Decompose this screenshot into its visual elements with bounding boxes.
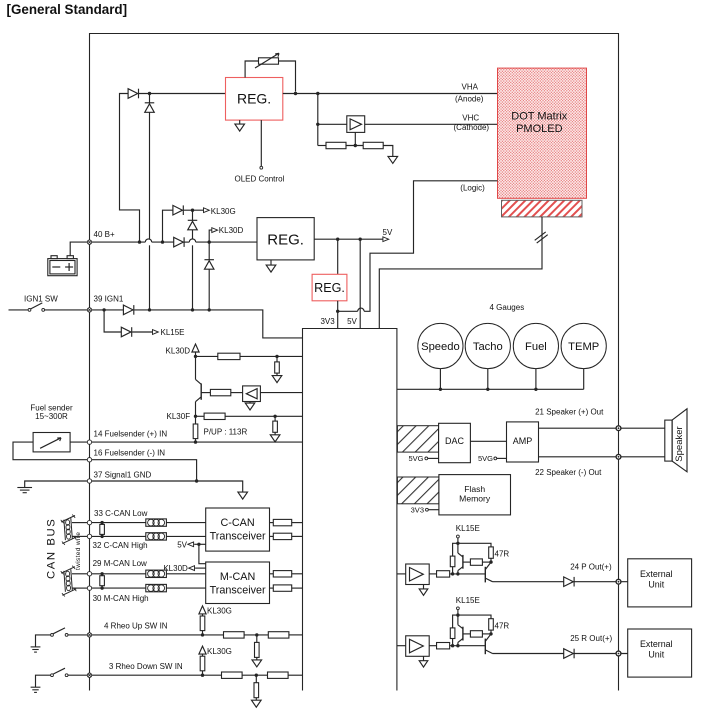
resistor R-e (450, 556, 455, 567)
svg-text:29 M-CAN Low: 29 M-CAN Low (93, 559, 147, 568)
wire row (92, 634, 224, 636)
svg-text:5VG: 5VG (408, 454, 423, 463)
svg-text:(Logic): (Logic) (460, 183, 485, 192)
wire out (493, 653, 564, 655)
pin 30 (87, 586, 91, 590)
choke FB1a (146, 519, 167, 526)
svg-text:(Anode): (Anode) (455, 94, 484, 103)
svg-text:47R: 47R (495, 621, 510, 630)
svg-text:IGN1 SW: IGN1 SW (24, 294, 58, 303)
transceiver U-CCAN (206, 508, 270, 551)
resistor R-e (450, 628, 455, 639)
wire row (92, 674, 222, 676)
choke FB1b (146, 533, 167, 540)
svg-text:KL30G: KL30G (211, 207, 236, 216)
svg-text:VHC: VHC (462, 114, 479, 123)
resistor R-base (463, 633, 471, 635)
svg-text:5VG: 5VG (478, 454, 493, 463)
wire VHC branch (317, 94, 319, 146)
svg-text:3V3: 3V3 (411, 506, 424, 515)
svg-text:KL30F: KL30F (167, 412, 191, 421)
diode D-out (564, 577, 574, 587)
resistor R-47R (489, 619, 494, 630)
ground signal1 (238, 492, 248, 499)
diode D-out (564, 649, 574, 659)
svg-text:Unit: Unit (648, 580, 664, 590)
svg-text:40 B+: 40 B+ (94, 230, 115, 239)
external unit box (628, 629, 692, 677)
resistor R-in (429, 573, 436, 575)
wire (Logic) line (338, 310, 358, 312)
pin 29 (87, 572, 91, 576)
ground drv (423, 656, 425, 660)
svg-text:Fuel: Fuel (525, 341, 547, 353)
wire rail (453, 615, 491, 628)
wire KL30G branch (163, 210, 173, 242)
wire B+ rail (92, 241, 146, 243)
pin 39 IGN1 (87, 308, 91, 312)
net out ring (616, 579, 621, 584)
svg-text:24 P Out(+): 24 P Out(+) (570, 562, 612, 571)
switch SW (51, 674, 54, 677)
svg-text:KL30D: KL30D (163, 564, 188, 573)
svg-text:KL15E: KL15E (456, 596, 480, 605)
svg-text:21 Speaker (+) Out: 21 Speaker (+) Out (535, 407, 604, 416)
ground REG2 (270, 260, 272, 265)
display PMOLED (498, 68, 587, 198)
svg-text:AMP: AMP (513, 436, 533, 446)
svg-text:5V: 5V (383, 228, 393, 237)
net label KL30G (204, 208, 210, 213)
wire logic cable (379, 217, 542, 329)
regulator REG2 (257, 218, 314, 260)
wire OLED Control (260, 120, 262, 166)
chassis ground SW (31, 686, 41, 688)
gauge Speedo (418, 323, 463, 368)
ground pd2 (270, 435, 280, 442)
connector DAC bus (397, 426, 438, 452)
svg-text:DAC: DAC (445, 436, 465, 446)
regulator REG1 (226, 78, 283, 121)
svg-text:Tacho: Tacho (473, 341, 503, 353)
resistor R-in (429, 645, 436, 647)
wire 5V to MCAN (199, 544, 206, 563)
svg-text:KL30G: KL30G (207, 607, 232, 616)
svg-text:REG.: REG. (267, 231, 304, 248)
resistor R-a (224, 632, 245, 638)
ground buf1 (249, 402, 251, 404)
svg-text:REG.: REG. (314, 281, 345, 295)
resistor R-pd1 (276, 356, 278, 362)
transistor Q-pnp (457, 543, 459, 553)
wire 5V rail (314, 238, 383, 240)
svg-text:C-CAN: C-CAN (220, 517, 254, 529)
regulator REG3 (337, 239, 339, 274)
resistor R-KL30D (196, 355, 218, 357)
resistor R-VHC2 (363, 142, 383, 148)
svg-text:M-CAN: M-CAN (220, 571, 255, 583)
resistor R-c32 (270, 535, 274, 537)
svg-text:Memory: Memory (459, 493, 491, 503)
svg-text:30 M-CAN High: 30 M-CAN High (93, 594, 149, 603)
resistor R-VHC1 (318, 145, 326, 147)
svg-text:Speaker: Speaker (674, 426, 685, 461)
ground pd (252, 660, 262, 667)
svg-text:39 IGN1: 39 IGN1 (94, 295, 124, 304)
net label KL30G pull-up (199, 606, 206, 614)
svg-text:Transceiver: Transceiver (210, 585, 266, 597)
svg-text:REG.: REG. (237, 91, 271, 107)
resistor R-c33 (270, 522, 274, 524)
wire KL15E branch (104, 310, 121, 332)
twisted pair 2 (72, 573, 87, 575)
gauge Tacho (465, 323, 510, 368)
resistor R-KL30F (196, 415, 205, 417)
svg-text:4 Gauges: 4 Gauges (490, 303, 525, 312)
gauge TEMP (561, 323, 606, 368)
amp U-AMP (507, 422, 539, 462)
wire row30 (92, 587, 146, 589)
wire sender to pin16 (13, 442, 87, 460)
resistor R-term1 (101, 523, 103, 525)
diode D-IGN1-KL30G (192, 210, 194, 220)
memory U-FLASH (439, 475, 511, 515)
cable marks (537, 235, 548, 243)
wire VHA (283, 93, 498, 95)
choke FB2b (146, 584, 167, 591)
ground drv (423, 585, 425, 589)
speaker SPK (665, 420, 672, 461)
wire sender to pin14 (70, 441, 87, 443)
amp U-drv (397, 645, 406, 647)
resistor R-pd (255, 675, 257, 683)
amp U-VHC (347, 116, 365, 133)
svg-text:Transceiver: Transceiver (210, 531, 266, 543)
svg-text:Flash: Flash (464, 484, 485, 494)
choke FB2a (146, 570, 167, 577)
svg-text:14 Fuelsender (+) IN: 14 Fuelsender (+) IN (94, 430, 168, 439)
switch SW (51, 634, 54, 637)
connector PMOLED flex (502, 200, 583, 217)
net label KL30D stub (209, 230, 212, 242)
svg-text:KL30D: KL30D (166, 346, 191, 355)
wire rail (453, 543, 491, 556)
svg-text:(Cathode): (Cathode) (454, 123, 490, 132)
svg-text:37 Signal1 GND: 37 Signal1 GND (94, 470, 152, 479)
pin 40 B+ (87, 240, 91, 244)
MCU block U-MCU (303, 329, 397, 691)
svg-text:PMOLED: PMOLED (516, 123, 563, 135)
wire IGN1 rail (92, 309, 124, 311)
wire REG1 feed from B+ (120, 94, 140, 243)
wire dac-amp (470, 440, 506, 442)
svg-text:47R: 47R (495, 550, 510, 559)
pin 32 (87, 534, 91, 538)
svg-text:32 C-CAN High: 32 C-CAN High (93, 541, 148, 550)
buffer U-buf1 (243, 386, 261, 402)
cluster housing outer box (90, 34, 619, 691)
resistor R-b (268, 632, 289, 638)
svg-text:33 C-CAN Low: 33 C-CAN Low (94, 509, 148, 518)
svg-text:DOT Matrix: DOT Matrix (511, 111, 568, 123)
svg-text:4 Rheo Up SW IN: 4 Rheo Up SW IN (104, 622, 168, 631)
svg-text:CAN BUS: CAN BUS (45, 518, 57, 579)
external unit box (628, 559, 692, 607)
pin (87, 633, 91, 637)
svg-text:External: External (640, 569, 673, 579)
wire line14 (92, 441, 303, 443)
net label KL30G pull-up (199, 646, 206, 654)
diode D-KL30G (173, 205, 183, 215)
net label 5V out (383, 237, 389, 242)
diode D-IGN1-KL30D (208, 242, 210, 260)
twisted pair 1 (72, 522, 87, 524)
resistor R-pu (202, 614, 204, 616)
svg-text:Speedo: Speedo (421, 341, 460, 353)
gauge Fuel (513, 323, 558, 368)
resistor R-pd2 (274, 416, 276, 421)
wire pin37 chassis (25, 481, 88, 488)
svg-text:Unit: Unit (648, 650, 664, 660)
wire line16 (92, 460, 197, 481)
net out ring (616, 651, 621, 656)
transistor Q-npn (484, 567, 486, 583)
diode D-REG1 (128, 89, 138, 99)
svg-text:22 Speaker (-) Out: 22 Speaker (-) Out (535, 468, 602, 477)
svg-text:3 Rheo Down SW IN: 3 Rheo Down SW IN (109, 662, 183, 671)
svg-text:[General Standard]: [General Standard] (7, 2, 128, 17)
ground pd (252, 700, 262, 707)
pin 33 (87, 520, 91, 524)
svg-text:KL30G: KL30G (207, 647, 232, 656)
wire line37 to ground (92, 481, 243, 492)
resistor R-base (463, 561, 471, 563)
diode D-IGN1-REG1 (149, 94, 151, 103)
transceiver U-MCAN (206, 562, 270, 604)
pin (87, 673, 91, 677)
resistor R-m29 (270, 573, 274, 575)
pin 16 (87, 458, 91, 462)
battery BAT (48, 259, 77, 276)
wire out (493, 581, 564, 583)
amp U-drv (397, 573, 406, 575)
wire row29 (92, 573, 146, 575)
wire battery to pin 40 (70, 242, 87, 256)
ground REG1 (239, 120, 241, 124)
resistor R-base1 (201, 392, 210, 394)
pin 37 (87, 479, 91, 483)
diode D-KL15E (121, 327, 131, 337)
transistor Q-pnp (457, 615, 459, 625)
connector flash bus (397, 477, 439, 504)
ground VHC divider (388, 156, 398, 163)
svg-text:KL15E: KL15E (456, 524, 480, 533)
wire 5V pin (359, 239, 361, 328)
svg-text:TEMP: TEMP (568, 341, 599, 353)
dac U-DAC (439, 423, 471, 462)
wire amp bottom (354, 132, 356, 145)
svg-text:VHA: VHA (462, 83, 479, 92)
wire 3V3 pin (337, 301, 339, 329)
resistor R-term2 (101, 574, 103, 576)
diode D-B+ (174, 237, 184, 247)
ground pd1 (272, 376, 282, 383)
resistor R-m30 (270, 587, 274, 589)
svg-text:OLED Control: OLED Control (235, 174, 285, 183)
rheostat RV1 (245, 61, 258, 78)
resistor R-b (268, 672, 289, 678)
net label KL15E (153, 330, 159, 335)
svg-text:KL15E: KL15E (161, 328, 185, 337)
transistor Q1 (195, 356, 197, 379)
resistor R-a (222, 672, 243, 678)
diode D-IGN1 (123, 305, 133, 315)
svg-text:P/UP : 113R: P/UP : 113R (204, 427, 248, 436)
resistor R-PUP pull-up (195, 416, 197, 424)
svg-text:KL30D: KL30D (219, 226, 244, 235)
wire gauge bus (397, 388, 584, 390)
chassis ground SW (31, 646, 41, 648)
svg-text:5V: 5V (177, 541, 187, 550)
svg-text:15~300R: 15~300R (35, 412, 68, 421)
svg-text:16 Fuelsender (-) IN: 16 Fuelsender (-) IN (94, 449, 166, 458)
svg-text:3V3: 3V3 (320, 317, 335, 326)
svg-text:25 R Out(+): 25 R Out(+) (570, 634, 612, 643)
resistor R-47R (489, 547, 494, 558)
resistor R-pd (256, 635, 258, 643)
wire row33 (92, 522, 146, 524)
wire row32 (92, 535, 146, 537)
svg-text:External: External (640, 639, 673, 649)
pin 14 (87, 440, 91, 444)
transistor Q-npn (484, 639, 486, 655)
resistor R-pu (202, 654, 204, 656)
svg-text:5V: 5V (347, 317, 357, 326)
